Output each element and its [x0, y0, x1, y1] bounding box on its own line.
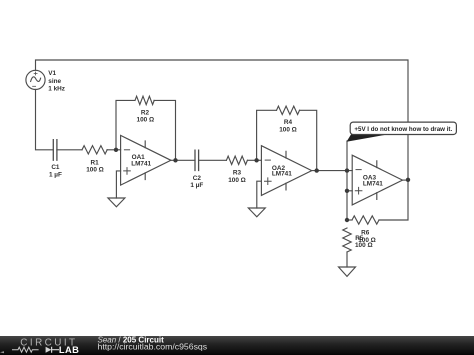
wire R6 left lead	[347, 219, 352, 221]
svg-text:1 µF: 1 µF	[190, 182, 203, 189]
wire OA3 + input stub	[347, 190, 352, 192]
svg-text:100 Ω: 100 Ω	[228, 177, 246, 184]
node R6/R5 junction	[345, 218, 349, 222]
wire R2 feedback loop	[116, 100, 176, 160]
op-amp OA2	[261, 146, 311, 196]
node OA3+ tap	[345, 189, 349, 193]
wire OA3 output	[403, 179, 409, 181]
node R1/R2/OA1- junction	[114, 148, 118, 152]
svg-text:LM741: LM741	[131, 161, 151, 168]
wire OA2 + input to ground	[257, 181, 262, 208]
logo resistor zigzag	[12, 347, 39, 352]
svg-text:100 Ω: 100 Ω	[355, 242, 373, 249]
ground	[248, 208, 265, 217]
svg-text:R2: R2	[141, 109, 150, 116]
op-amp OA1	[121, 135, 171, 185]
op-amp OA3	[352, 155, 402, 205]
svg-text:+5V I do not know how to draw: +5V I do not know how to draw it.	[354, 126, 452, 133]
node OA1 out/R2 junction	[173, 158, 177, 162]
node OA3- tap	[345, 168, 349, 172]
logo diode	[46, 347, 52, 353]
wire OA2 output to OA3 inverting input	[312, 170, 353, 172]
footer bar	[0, 336, 474, 355]
corner mark	[0, 351, 4, 353]
wire feedback return right side down to R6	[379, 180, 408, 220]
svg-text:LAB: LAB	[59, 345, 79, 355]
node R3/R4/OA2- junction	[254, 158, 258, 162]
svg-text:1 µF: 1 µF	[49, 172, 62, 179]
wire R1 to OA1 inverting input	[107, 149, 121, 151]
resistor R2	[135, 96, 154, 104]
wire top rail V1 to right side	[36, 60, 409, 180]
wire OA1 + input to ground	[116, 171, 120, 198]
svg-text:R4: R4	[284, 119, 293, 126]
wire C2 to R3	[199, 159, 227, 161]
voltage source V1	[26, 70, 45, 89]
svg-text:1 kHz: 1 kHz	[48, 85, 65, 92]
resistor R3	[226, 156, 247, 164]
wire C1 to R1	[57, 149, 82, 151]
svg-text:R3: R3	[233, 170, 242, 177]
svg-text:http://circuitlab.com/c956sqs: http://circuitlab.com/c956sqs	[98, 342, 208, 352]
wire R3 to OA2 inverting input	[248, 159, 262, 161]
svg-text:LM741: LM741	[363, 181, 383, 188]
ground	[108, 198, 125, 207]
svg-text:100 Ω: 100 Ω	[279, 126, 297, 133]
svg-text:C2: C2	[193, 175, 202, 182]
svg-text:V1: V1	[48, 70, 56, 77]
wire OA1 output to C2	[171, 159, 195, 161]
ground	[339, 267, 356, 276]
resistor R1	[82, 146, 107, 154]
svg-text:100 Ω: 100 Ω	[137, 116, 155, 123]
wire OA3 node vertical	[346, 141, 348, 220]
annotation callout +5V	[347, 122, 457, 142]
node OA2 out/R4 junction	[315, 168, 319, 172]
capacitor C2	[195, 150, 199, 170]
svg-text:sine: sine	[48, 78, 61, 85]
wire V1 bottom to C1	[36, 89, 54, 149]
resistor R4	[277, 106, 300, 114]
svg-text:C1: C1	[51, 164, 60, 171]
resistor R6	[352, 216, 379, 224]
resistor R5	[343, 228, 351, 252]
svg-text:R1: R1	[91, 159, 100, 166]
wire R5 bottom to ground	[346, 252, 348, 267]
capacitor C1	[53, 140, 57, 161]
svg-text:LM741: LM741	[272, 171, 292, 178]
svg-text:100 Ω: 100 Ω	[86, 167, 104, 174]
wire R4 feedback loop	[257, 110, 317, 170]
node OA3 out junction	[406, 178, 410, 182]
